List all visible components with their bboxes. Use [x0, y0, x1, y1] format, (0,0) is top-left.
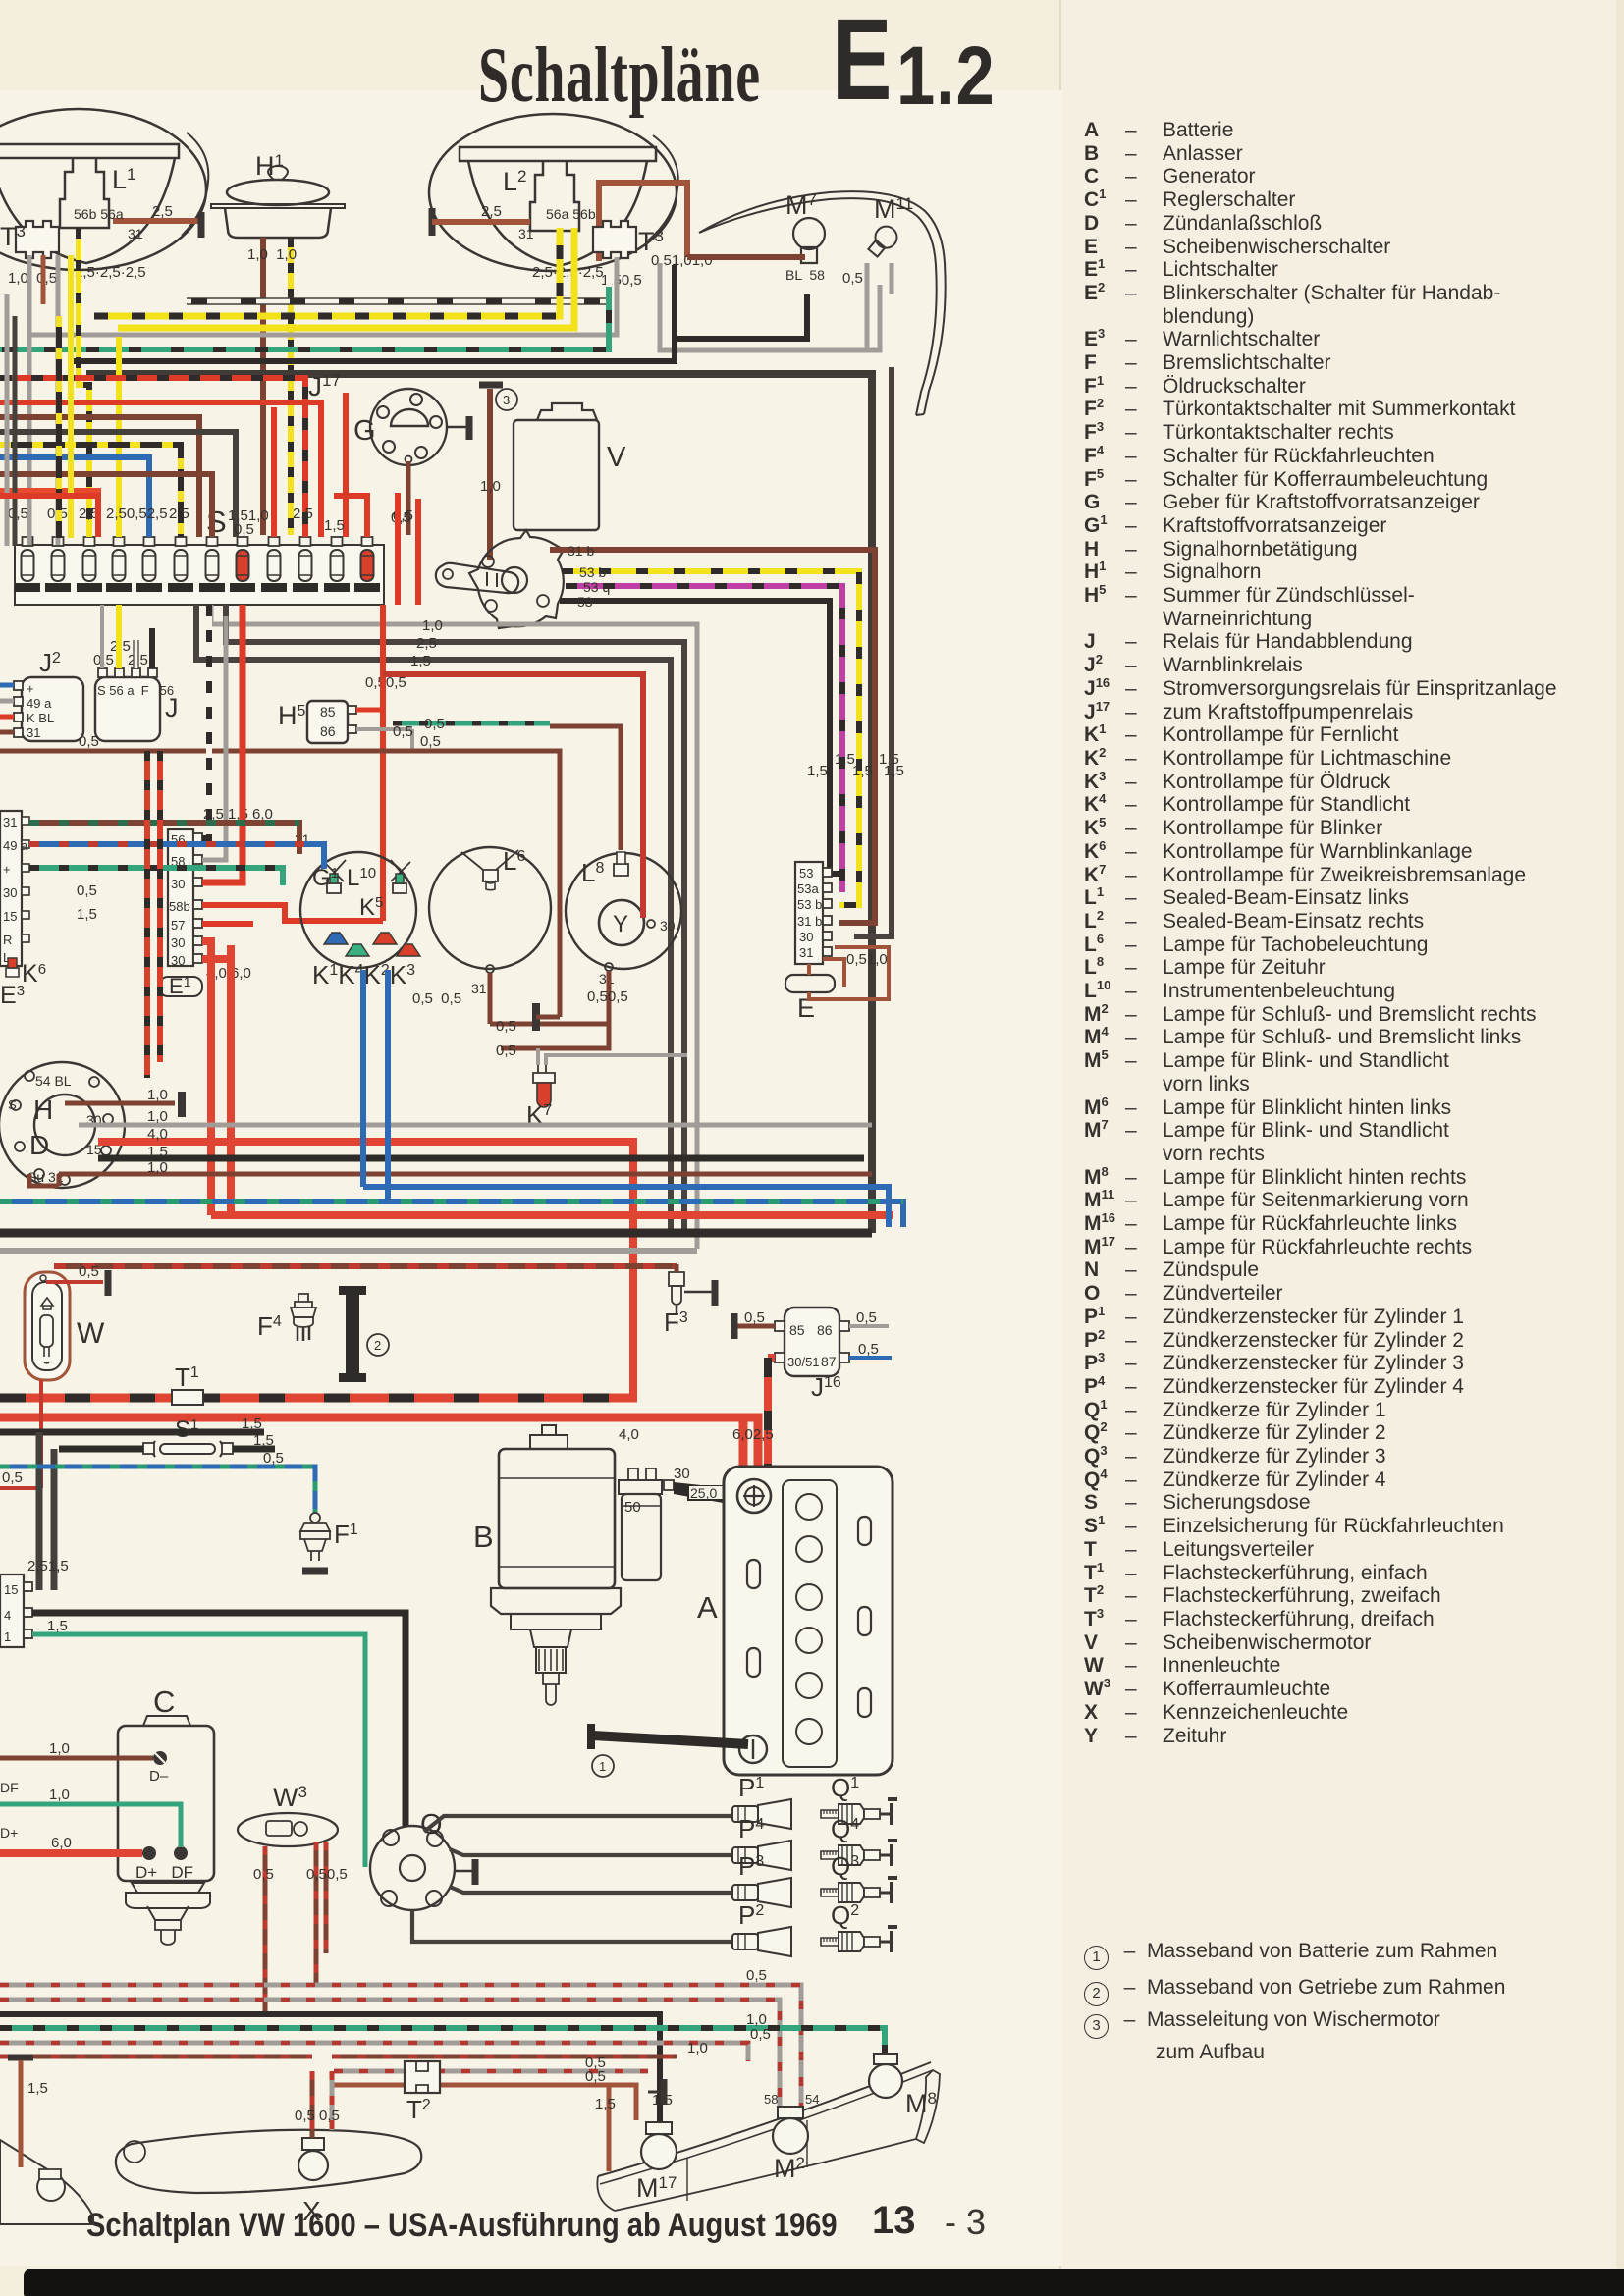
svg-text:W3: W3 — [273, 1783, 307, 1812]
bus grey/red a — [0, 1985, 801, 2107]
svg-text:1: 1 — [4, 1629, 11, 1644]
svg-text:53: 53 — [577, 594, 593, 610]
svg-text:1,5: 1,5 — [242, 1415, 262, 1432]
svg-text:M8: M8 — [905, 2089, 937, 2118]
svg-text:B: B — [473, 1520, 494, 1554]
interior light W — [25, 1272, 70, 1380]
buzzer H5 — [307, 701, 356, 743]
svg-text:S: S — [8, 1097, 17, 1112]
ignition lead P1 — [424, 1816, 732, 1832]
svg-text:2,5·2,5·2,5: 2,5·2,5·2,5 — [532, 264, 604, 281]
svg-text:1,0: 1,0 — [49, 1787, 70, 1803]
connector T3 right — [593, 221, 636, 258]
wire blue horizontals right — [363, 970, 889, 1227]
svg-text:0,50,5: 0,50,5 — [587, 988, 628, 1005]
wire red to E1 30b via H5 line — [202, 905, 383, 921]
svg-text:4,0: 4,0 — [619, 1426, 639, 1443]
spark plug Q3 — [821, 1878, 897, 1903]
svg-text:58b: 58b — [169, 899, 190, 914]
harness striped blue/red — [29, 844, 324, 869]
svg-text:T1: T1 — [175, 1362, 199, 1392]
wiper motor V — [514, 403, 599, 530]
svg-text:Q1: Q1 — [831, 1773, 859, 1802]
svg-text:2,51,5: 2,51,5 — [27, 1558, 69, 1575]
wire grey J16 86 — [849, 1324, 889, 1328]
lamp K6 — [6, 958, 19, 977]
wire brown G down — [406, 461, 411, 535]
svg-text:0,5: 0,5 — [8, 506, 28, 522]
svg-text:0,5: 0,5 — [585, 2068, 606, 2085]
wire red thick bus to battery — [0, 1417, 758, 1484]
svg-text:31: 31 — [3, 815, 17, 829]
svg-text:2,5: 2,5 — [416, 635, 437, 652]
wire grey fuse 2 up — [56, 255, 61, 545]
svg-text:0,5: 0,5 — [856, 1309, 877, 1326]
wire brown L6 31 down — [490, 973, 609, 1024]
svg-text:J16: J16 — [811, 1372, 841, 1402]
wire red clock 30 up — [383, 674, 643, 918]
connector E1 strip — [168, 829, 202, 968]
headlight L2 (sealed beam right) — [429, 114, 678, 271]
wire brown E loop — [809, 947, 889, 999]
wire brown 0,5 long — [0, 751, 560, 1017]
wire yellow fuse to J 56a — [116, 605, 122, 668]
wire grey to E1 58 — [202, 616, 226, 860]
bus black — [0, 2014, 660, 2125]
wire teal from C1 — [32, 1634, 365, 1867]
wire blue to J2 + — [0, 683, 14, 688]
wire red to J2 KBL — [0, 715, 14, 720]
svg-text:K BL: K BL — [27, 711, 54, 725]
frame bottom grey — [0, 1248, 697, 1254]
svg-text:D+: D+ — [0, 1825, 18, 1841]
wire grey K7 up — [538, 1048, 687, 1065]
label E1 pill — [159, 974, 202, 998]
ignition lead P4 — [450, 1849, 732, 1855]
harness wire red a — [0, 402, 321, 537]
wire grey staircase 1 — [211, 605, 697, 1249]
bus brown/red — [0, 2055, 677, 2059]
bus wire yellow — [118, 228, 574, 328]
wire 53b yellow/black from wiper — [562, 571, 859, 905]
wire red H5 85 — [356, 708, 383, 713]
lamp M17 — [641, 2122, 677, 2169]
svg-text:1,0 0,5: 1,0 0,5 — [8, 270, 57, 287]
wire maroon/red W3 down — [263, 1846, 268, 2011]
wire grey M11 stub — [890, 263, 894, 294]
fuse 9 — [261, 537, 287, 592]
ignition lead P2 — [412, 1910, 732, 1942]
svg-text:1,5: 1,5 — [324, 517, 345, 534]
svg-text:0,51,0: 0,51,0 — [846, 951, 888, 968]
svg-text:87: 87 — [821, 1354, 837, 1369]
svg-text:86: 86 — [817, 1322, 833, 1338]
fuse 11 — [324, 537, 350, 592]
wire brown/red dashed bus — [54, 1263, 677, 1269]
wire green DF — [0, 1804, 181, 1847]
svg-text:0,5: 0,5 — [79, 1263, 99, 1280]
wire red vertical x390 — [380, 605, 386, 921]
wire red pair above fuse 11 — [398, 493, 418, 605]
svg-text:1,0: 1,0 — [147, 1108, 168, 1125]
svg-text:1,5: 1,5 — [147, 1144, 168, 1160]
svg-text:2,50,52,5: 2,50,52,5 — [106, 506, 168, 522]
wiper crank arm — [436, 563, 518, 593]
bus wire teal/black — [0, 287, 609, 349]
wire grey T3l down to fuse 1 — [27, 255, 32, 545]
wire red J17 down — [343, 393, 349, 537]
svg-text:K6: K6 — [22, 960, 46, 988]
svg-text:0,5: 0,5 — [746, 1967, 767, 1984]
svg-text:0,5: 0,5 — [393, 723, 413, 740]
svg-text:L6: L6 — [503, 846, 525, 876]
speedo lamp circle L6 — [429, 847, 551, 973]
connector T2 — [405, 2061, 440, 2093]
fuse 12 — [354, 537, 380, 592]
lamp M7 blink/stand front right — [793, 218, 825, 263]
harness wire red/black dashed — [0, 378, 305, 537]
svg-text:F3: F3 — [664, 1308, 688, 1337]
bus green/black — [0, 2028, 885, 2057]
harness striped teal/black — [29, 868, 283, 885]
left tail lamp housing — [0, 2140, 93, 2224]
wire 53q magenta/black from wiper — [566, 586, 842, 889]
fuse 6 — [168, 537, 193, 592]
svg-text:4: 4 — [4, 1608, 11, 1623]
wire black 1,5 — [0, 1429, 264, 1436]
svg-text:2,5: 2,5 — [152, 203, 173, 220]
fuse 4 — [106, 537, 132, 592]
wire red W top — [46, 1280, 103, 1284]
wire F3 to ground — [684, 1291, 713, 1294]
wire brown from H1 down — [260, 238, 266, 535]
ground T-bar G — [466, 416, 473, 440]
battery cable 25,0 — [674, 1482, 729, 1504]
svg-text:30: 30 — [674, 1466, 690, 1482]
wire brown J16 85 — [737, 1324, 775, 1329]
svg-text:6,02,5: 6,02,5 — [732, 1426, 774, 1443]
svg-text:1,0: 1,0 — [687, 2040, 708, 2056]
svg-text:31: 31 — [128, 226, 143, 241]
wire brown 1,0 D 31 — [29, 1174, 872, 1186]
spark plug Q4 — [821, 1841, 897, 1866]
wire red E1 30c down — [202, 941, 893, 1215]
harness wire red c — [334, 496, 367, 537]
svg-text:1,5: 1,5 — [47, 1618, 68, 1634]
wire black 1,5 D 15 — [98, 1155, 864, 1162]
svg-text:53: 53 — [799, 866, 813, 881]
svg-text:0,5: 0,5 — [253, 1866, 274, 1883]
svg-text:H5: H5 — [278, 701, 306, 730]
svg-text:0,50,5: 0,50,5 — [306, 1866, 348, 1883]
bus grey/red short — [334, 2069, 648, 2074]
svg-text:57: 57 — [171, 918, 185, 933]
svg-text:0,5: 0,5 — [391, 509, 411, 526]
svg-text:2,5: 2,5 — [481, 203, 502, 220]
wire grey 1,0 D P — [79, 1123, 872, 1128]
svg-text:1,5: 1,5 — [410, 653, 431, 669]
svg-text:58: 58 — [764, 2092, 778, 2107]
bus grey/red b — [0, 2000, 780, 2107]
svg-text:S1: S1 — [175, 1416, 198, 1443]
svg-text:+: + — [3, 862, 11, 877]
distributor O — [370, 1826, 455, 1910]
wire O ground — [455, 1870, 473, 1873]
svg-text:85: 85 — [789, 1322, 805, 1338]
svg-text:P4: P4 — [738, 1814, 764, 1843]
svg-text:30: 30 — [660, 918, 676, 934]
left edge dark vertical — [13, 316, 18, 546]
ground strap 1 — [593, 1735, 748, 1744]
svg-text:15: 15 — [4, 1582, 18, 1597]
ground T-bar left — [8, 2055, 33, 2061]
node circle 3 — [496, 389, 517, 410]
svg-text:31: 31 — [518, 226, 534, 241]
battery A — [724, 1467, 893, 1775]
wire black/white striped to E1 56 — [202, 605, 209, 838]
wire blkwhite to J 56 — [149, 628, 155, 668]
wire blue pair verticals — [360, 970, 366, 1187]
bus wire black — [74, 339, 675, 361]
plug connector P2 — [732, 1927, 791, 1956]
svg-text:Y: Y — [613, 911, 628, 937]
svg-text:0,5 0,5: 0,5 0,5 — [412, 990, 461, 1007]
svg-text:3: 3 — [503, 393, 510, 407]
svg-text:2,5: 2,5 — [169, 506, 189, 522]
ground T-bar small — [661, 2079, 668, 2105]
svg-text:K5: K5 — [359, 894, 383, 921]
svg-text:30: 30 — [3, 885, 17, 900]
svg-text:0,5: 0,5 — [77, 882, 97, 899]
svg-text:53a: 53a — [797, 881, 819, 896]
ground T-bar mid — [532, 1003, 540, 1031]
svg-text:31: 31 — [799, 945, 813, 960]
headlight L1 (sealed beam left) — [0, 109, 208, 270]
svg-text:0,5: 0,5 — [234, 521, 254, 538]
svg-text:1,0: 1,0 — [422, 617, 443, 634]
connector E right strip — [795, 862, 832, 964]
fuse box S — [15, 545, 384, 605]
svg-text:54 BL: 54 BL — [35, 1073, 72, 1089]
svg-text:Q2: Q2 — [831, 1900, 859, 1930]
svg-text:0,5: 0,5 — [2, 1469, 23, 1486]
node circle 2 — [367, 1334, 389, 1356]
oil pressure switch F1 — [300, 1513, 330, 1571]
svg-text:56a 56b: 56a 56b — [546, 206, 596, 222]
svg-text:53 b: 53 b — [797, 897, 822, 912]
wire black M7 loop — [675, 265, 807, 339]
svg-text:1,0: 1,0 — [147, 1159, 168, 1176]
svg-text:31 b: 31 b — [568, 543, 594, 559]
lamp M2 — [773, 2107, 808, 2154]
svg-text:1,0: 1,0 — [147, 1087, 168, 1103]
svg-text:P3: P3 — [738, 1851, 764, 1881]
svg-text:49 a: 49 a — [27, 696, 52, 711]
harness striped maroon — [29, 823, 299, 854]
svg-text:1,5: 1,5 — [807, 763, 828, 779]
wire brown clock 31 down — [501, 971, 609, 1048]
generator C — [118, 1716, 214, 1881]
wire teal/blue dashed long — [0, 1201, 903, 1227]
switch F4 — [291, 1294, 316, 1341]
svg-text:1,0: 1,0 — [49, 1740, 70, 1757]
wire black coil from C1 — [32, 1613, 406, 1827]
wire grey H5 86 — [356, 729, 412, 751]
wire brown 2,5 from T-bar to L2 — [432, 219, 530, 225]
svg-text:1,0 1,0: 1,0 1,0 — [247, 246, 297, 263]
svg-text:6,0: 6,0 — [51, 1835, 72, 1851]
relay J2 warnblink — [14, 677, 83, 741]
svg-text:G: G — [353, 415, 376, 447]
svg-text:R: R — [3, 933, 12, 947]
svg-text:H1: H1 — [255, 151, 284, 181]
ignition lead P3 — [450, 1887, 732, 1893]
svg-text:86: 86 — [320, 723, 336, 739]
bus grey/red c — [0, 2043, 748, 2061]
svg-text:M2: M2 — [774, 2154, 805, 2183]
svg-text:30: 30 — [171, 877, 185, 891]
wire black S1 left — [59, 1446, 143, 1453]
wire brown F3 up — [675, 1264, 679, 1272]
svg-text:0,5: 0,5 — [744, 1309, 765, 1326]
svg-text:DF: DF — [0, 1780, 19, 1795]
svg-text:54: 54 — [805, 2092, 819, 2107]
fuse 2 — [45, 537, 71, 592]
wire yellow/black L1 bulb down to fuse 3 — [79, 228, 89, 537]
svg-text:J2: J2 — [39, 648, 61, 677]
svg-text:50: 50 — [624, 1499, 641, 1516]
svg-text:1,5: 1,5 — [595, 2096, 616, 2112]
wire maroon T3r to M7 — [687, 254, 805, 260]
wire red W bottom — [0, 1380, 41, 1488]
svg-text:1: 1 — [599, 1759, 606, 1774]
svg-text:D+ DF: D+ DF — [135, 1863, 193, 1882]
fuse 3 — [77, 537, 102, 592]
svg-text:Q4: Q4 — [831, 1814, 859, 1843]
svg-text:P2: P2 — [738, 1900, 764, 1930]
starter B — [491, 1425, 621, 1705]
svg-text:1,5: 1,5 — [884, 763, 904, 779]
wire blue/green to F1 — [0, 1467, 315, 1514]
svg-text:A: A — [697, 1590, 718, 1625]
wire brown wiper ground — [487, 389, 493, 560]
svg-text:1,5: 1,5 — [27, 2080, 48, 2097]
svg-text:C: C — [153, 1684, 175, 1719]
wire grey to J S — [100, 605, 104, 668]
ignition connector column D — [0, 811, 29, 966]
svg-text:H: H — [33, 1095, 53, 1125]
connector T1 on red wire — [172, 1390, 203, 1405]
svg-text:F4: F4 — [257, 1311, 282, 1341]
svg-text:2: 2 — [374, 1338, 381, 1353]
svg-text:30/51: 30/51 — [787, 1355, 820, 1369]
fuel sender G — [370, 389, 447, 465]
svg-text:31: 31 — [27, 725, 40, 740]
svg-text:0,5: 0,5 — [496, 1018, 516, 1035]
harness wire black/yellow — [0, 445, 181, 537]
bus wire black/white striped — [187, 265, 612, 304]
svg-text:2,5·2,5·2,5: 2,5·2,5·2,5 — [75, 264, 146, 281]
svg-text:T2: T2 — [406, 2095, 431, 2124]
wire 31b maroon from wiper — [550, 550, 875, 923]
wire pair W3 right down — [316, 1842, 326, 1986]
svg-text:31: 31 — [471, 981, 487, 996]
bus wire yellow/black — [94, 228, 560, 316]
svg-text:1,5: 1,5 — [253, 1432, 274, 1449]
relay J — [95, 668, 174, 741]
spark plug Q2 — [821, 1927, 897, 1952]
svg-text:0,5 0,5: 0,5 0,5 — [295, 2108, 340, 2124]
wire yellow bus down to fuse 4 — [116, 337, 122, 537]
wire grey M11 loop — [660, 263, 880, 350]
svg-text:30: 30 — [799, 930, 813, 944]
left edge grey vertical — [5, 294, 10, 546]
wire dark staircase 3 — [196, 605, 671, 1233]
spark plug Q1 — [821, 1799, 897, 1825]
svg-text:0,5: 0,5 — [858, 1341, 879, 1358]
fender curve right — [699, 191, 946, 415]
frame bottom black — [0, 1229, 872, 1238]
wire black/yellow vertical left — [56, 316, 62, 538]
harness wire blue — [0, 457, 149, 537]
harness wire maroon b — [0, 474, 212, 537]
wire grey to J2 49a — [0, 699, 14, 704]
svg-text:0,5: 0,5 — [750, 2026, 771, 2043]
plug connector P3 — [732, 1878, 791, 1907]
wire brown left down — [19, 2060, 24, 2167]
wire yellow T3l down — [68, 255, 74, 538]
svg-text:E1: E1 — [169, 974, 191, 998]
svg-text:D: D — [29, 1130, 49, 1160]
starter solenoid — [619, 1468, 674, 1580]
wire G to ground — [447, 426, 468, 429]
wire dark staircase 2 — [226, 605, 684, 1233]
fuse 7 — [199, 537, 225, 592]
wire red fuse 9 up — [271, 407, 277, 537]
svg-text:30: 30 — [171, 935, 185, 950]
wire brown H 1,0 to ground — [65, 1101, 175, 1106]
harness wire red b — [0, 491, 98, 537]
clock Y — [566, 852, 681, 971]
svg-text:30: 30 — [171, 953, 185, 968]
svg-text:Q3: Q3 — [831, 1851, 859, 1881]
rear body panel — [598, 2062, 931, 2176]
node T-bar left of L2 — [429, 208, 436, 236]
frame top line — [86, 374, 872, 1233]
connector T3 left — [16, 221, 59, 258]
node circle 1 — [592, 1755, 614, 1777]
wire brown 1,5 M17 — [607, 2085, 612, 2171]
plug connector P1 — [732, 1799, 791, 1829]
svg-text:4,0: 4,0 — [147, 1126, 168, 1143]
wire brown/red X — [310, 2071, 315, 2138]
ground note 3 T-bar — [479, 382, 503, 389]
svg-text:2,5: 2,5 — [293, 506, 313, 522]
wire 53 black from wiper — [560, 601, 839, 874]
svg-text:P1: P1 — [738, 1773, 764, 1802]
wire brown T to x570 — [536, 1015, 560, 1020]
node T-bar — [198, 212, 205, 238]
wire maroon clock bulb up — [550, 726, 621, 850]
svg-text:+: + — [27, 681, 34, 696]
wiper gear housing — [469, 530, 564, 628]
svg-text:X: X — [302, 2196, 321, 2226]
svg-text:85: 85 — [320, 704, 336, 720]
bus brown short — [334, 2085, 636, 2120]
wire white to J F — [134, 640, 138, 668]
svg-text:25,0: 25,0 — [690, 1485, 717, 1501]
bus wire grey — [29, 257, 617, 335]
